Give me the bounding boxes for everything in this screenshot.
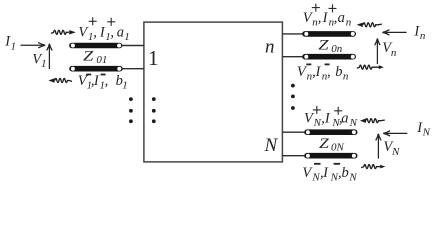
- plus sign over IN: [334, 107, 342, 115]
- svg-text:VN,IN,aN: VN,IN,aN: [304, 111, 358, 130]
- N-port network box: [144, 22, 283, 162]
- svg-text:In: In: [413, 24, 426, 43]
- svg-text:Z0N: Z0N: [319, 136, 345, 154]
- svg-text:Vn,In,an: Vn,In,an: [303, 10, 352, 28]
- svg-text:Z01: Z01: [83, 48, 107, 65]
- minus sign over I1: [101, 74, 106, 76]
- incident wave squiggle an: [357, 23, 382, 27]
- wire port N bottom: [282, 155, 305, 157]
- current I1 arrow: [21, 43, 46, 48]
- svg-text:IN: IN: [416, 120, 430, 139]
- svg-text:VN,IN,bN: VN,IN,bN: [302, 165, 357, 184]
- svg-text:V1: V1: [32, 52, 46, 70]
- svg-text:Z0n: Z0n: [318, 38, 342, 55]
- transmission line Z01 top conductor: [69, 43, 122, 49]
- minus sign over In: [325, 64, 330, 66]
- reflected wave squiggle bn: [357, 65, 384, 69]
- transmission line Z0n bottom conductor: [302, 54, 356, 60]
- svg-text:Vn,In,bn: Vn,In,bn: [297, 64, 349, 82]
- reflected wave squiggle bN: [361, 165, 385, 169]
- voltage V1 arrow: [47, 44, 52, 69]
- svg-text:n: n: [265, 37, 275, 58]
- wire port n top: [282, 33, 303, 35]
- svg-text:VN: VN: [383, 139, 400, 158]
- svg-text:1: 1: [148, 46, 159, 70]
- incident wave squiggle aN: [360, 119, 385, 123]
- minus sign over Vn: [306, 64, 311, 66]
- svg-text:I1: I1: [4, 34, 16, 53]
- reflected wave squiggle b1: [48, 78, 72, 82]
- current In arrow: [382, 30, 406, 35]
- transmission line Z0N bottom conductor: [304, 153, 357, 159]
- wire port N top: [282, 131, 305, 133]
- plus sign over VN: [313, 106, 321, 114]
- plus sign over Vn: [312, 4, 320, 12]
- ellipsis dots left outer column: [129, 97, 133, 123]
- current IN arrow: [383, 131, 407, 136]
- transmission line Z0n top conductor: [302, 31, 356, 37]
- ellipsis dots right column: [291, 84, 295, 110]
- plus sign over I1: [107, 18, 115, 26]
- transmission line Z01 bottom conductor: [69, 66, 123, 72]
- wire port1 top: [122, 45, 145, 47]
- voltage VN arrow: [376, 134, 381, 159]
- svg-text:V1,I1,a1: V1,I1,a1: [78, 24, 129, 43]
- plus sign over In: [329, 4, 337, 12]
- minus sign over VN: [314, 163, 321, 165]
- voltage Vn arrow: [375, 39, 380, 65]
- plus sign over V1: [89, 17, 97, 25]
- ellipsis dots left inner column: [152, 97, 156, 123]
- svg-text:N: N: [264, 135, 279, 156]
- svg-text:Vn: Vn: [382, 40, 397, 59]
- minus sign over V1: [86, 74, 91, 76]
- minus sign over IN: [334, 163, 341, 165]
- wire port1 bottom: [122, 68, 145, 70]
- wire port n bottom: [282, 56, 303, 58]
- incident wave squiggle a1: [51, 30, 76, 34]
- svg-text:V1,I1,b1: V1,I1,b1: [78, 73, 128, 91]
- transmission line Z0N top conductor: [304, 129, 357, 135]
